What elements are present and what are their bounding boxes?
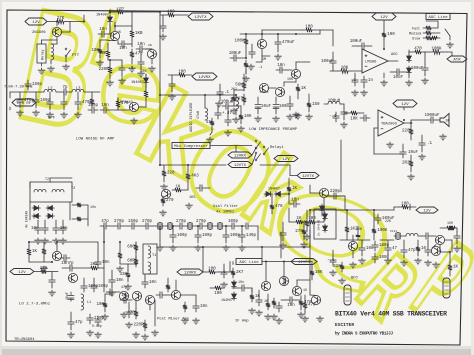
svg-text:Xtal: Xtal bbox=[390, 229, 397, 233]
svg-text:10K: 10K bbox=[91, 49, 99, 53]
svg-text:10n: 10n bbox=[116, 279, 124, 283]
svg-text:10uF: 10uF bbox=[261, 105, 272, 109]
svg-text:SP: SP bbox=[446, 119, 450, 123]
svg-text:220p: 220p bbox=[330, 190, 341, 194]
svg-text:27K: 27K bbox=[57, 17, 65, 21]
svg-text:10u: 10u bbox=[366, 247, 374, 251]
svg-text:1K: 1K bbox=[296, 217, 302, 221]
svg-text:1K: 1K bbox=[264, 299, 268, 303]
svg-text:L2: L2 bbox=[47, 88, 53, 92]
svg-text:600: 600 bbox=[127, 246, 135, 250]
svg-text:10uF: 10uF bbox=[393, 76, 404, 80]
svg-text:22K: 22K bbox=[385, 219, 391, 223]
svg-text:1M: 1M bbox=[262, 57, 266, 61]
svg-text:7p: 7p bbox=[68, 262, 74, 266]
svg-text:10n: 10n bbox=[101, 104, 109, 108]
svg-text:470uF: 470uF bbox=[282, 41, 295, 45]
svg-text:2K7: 2K7 bbox=[236, 271, 244, 275]
svg-text:ATR: ATR bbox=[453, 59, 461, 63]
svg-text:BFO: BFO bbox=[351, 277, 359, 281]
svg-text:1K: 1K bbox=[117, 30, 121, 34]
svg-text:270p: 270p bbox=[142, 220, 153, 224]
svg-text:10K: 10K bbox=[341, 66, 349, 70]
svg-text:2N: 2N bbox=[148, 44, 152, 47]
svg-text:10n: 10n bbox=[277, 64, 285, 68]
svg-text:.1: .1 bbox=[427, 142, 433, 146]
svg-text:7p: 7p bbox=[62, 86, 68, 90]
svg-text:100: 100 bbox=[298, 222, 306, 226]
svg-text:1K: 1K bbox=[255, 295, 261, 299]
svg-text:47: 47 bbox=[392, 247, 398, 251]
svg-text:1N4007: 1N4007 bbox=[96, 14, 109, 18]
svg-text:12VTX: 12VTX bbox=[302, 175, 315, 179]
svg-text:TR=2N3904: TR=2N3904 bbox=[14, 338, 35, 342]
svg-text:AGC: AGC bbox=[391, 53, 399, 57]
svg-text:10: 10 bbox=[303, 288, 307, 292]
svg-text:10K: 10K bbox=[287, 77, 293, 81]
svg-text:100K: 100K bbox=[377, 229, 388, 233]
svg-text:10n: 10n bbox=[149, 281, 157, 285]
svg-text:12V: 12V bbox=[401, 103, 409, 107]
svg-text:-.1: -.1 bbox=[329, 115, 337, 119]
svg-text:4x 1N4148: 4x 1N4148 bbox=[25, 211, 29, 228]
svg-text:220: 220 bbox=[402, 130, 410, 134]
svg-text:BPF: BPF bbox=[48, 117, 56, 121]
svg-text:AGC Line: AGC Line bbox=[239, 260, 259, 265]
svg-text:2N3906: 2N3906 bbox=[32, 31, 46, 35]
svg-text:220R: 220R bbox=[134, 324, 145, 328]
svg-text:1KB: 1KB bbox=[135, 32, 143, 36]
svg-text:PTT: PTT bbox=[72, 54, 80, 58]
svg-text:12V: 12V bbox=[423, 210, 431, 214]
svg-text:LO 2.7-3.0Mhz: LO 2.7-3.0Mhz bbox=[19, 302, 51, 307]
svg-text:Relay1: Relay1 bbox=[270, 145, 284, 150]
svg-text:150p: 150p bbox=[32, 83, 43, 87]
svg-text:150p: 150p bbox=[128, 220, 139, 224]
svg-text:51: 51 bbox=[206, 121, 212, 125]
svg-text:1K: 1K bbox=[32, 250, 38, 254]
svg-text:100: 100 bbox=[401, 202, 409, 206]
svg-text:12V: 12V bbox=[18, 271, 26, 275]
svg-text:470: 470 bbox=[275, 205, 283, 209]
svg-text:AGC Line: AGC Line bbox=[428, 15, 448, 20]
svg-text:150: 150 bbox=[312, 103, 320, 107]
svg-text:10K: 10K bbox=[244, 115, 252, 119]
svg-text:1n: 1n bbox=[368, 79, 374, 83]
svg-text:100p: 100p bbox=[98, 285, 109, 289]
svg-text:33K: 33K bbox=[119, 273, 127, 277]
svg-text:100: 100 bbox=[214, 292, 222, 296]
svg-text:10K: 10K bbox=[356, 227, 362, 231]
svg-text:T2: T2 bbox=[45, 177, 49, 181]
svg-text:4K3: 4K3 bbox=[191, 175, 199, 179]
svg-text:10K: 10K bbox=[96, 303, 104, 307]
svg-text:Slow: Slow bbox=[412, 37, 420, 42]
svg-text:100: 100 bbox=[308, 217, 316, 221]
svg-text:10n: 10n bbox=[137, 43, 145, 47]
svg-text:100uF: 100uF bbox=[350, 40, 363, 44]
svg-text:270p: 270p bbox=[196, 220, 207, 224]
svg-text:270p: 270p bbox=[114, 220, 125, 224]
svg-text:.1: .1 bbox=[224, 91, 230, 95]
svg-text:10n: 10n bbox=[287, 304, 295, 308]
svg-text:100uF: 100uF bbox=[411, 67, 424, 71]
svg-text:EXCITER: EXCITER bbox=[335, 323, 354, 328]
svg-text:10n: 10n bbox=[90, 205, 96, 209]
svg-text:220: 220 bbox=[167, 172, 175, 176]
svg-text:.1: .1 bbox=[351, 79, 357, 83]
svg-text:1K: 1K bbox=[301, 87, 307, 91]
svg-text:100: 100 bbox=[279, 105, 287, 109]
svg-text:BITX40 Ver4 40M SSB TRANSCEIVE: BITX40 Ver4 40M SSB TRANSCEIVER bbox=[335, 311, 447, 318]
svg-text:.1: .1 bbox=[258, 66, 262, 70]
svg-text:Fast: Fast bbox=[412, 28, 420, 32]
svg-text:-.1: -.1 bbox=[327, 259, 335, 263]
svg-text:220: 220 bbox=[333, 265, 341, 269]
svg-text:T1: T1 bbox=[152, 254, 156, 258]
svg-text:2x 1N4148: 2x 1N4148 bbox=[318, 220, 321, 236]
svg-text:12VRX: 12VRX bbox=[234, 155, 247, 159]
svg-text:47p: 47p bbox=[101, 220, 109, 224]
svg-text:100p: 100p bbox=[88, 104, 99, 108]
svg-text:10n: 10n bbox=[291, 198, 299, 202]
svg-text:100: 100 bbox=[208, 267, 216, 271]
svg-text:10n: 10n bbox=[31, 227, 39, 231]
svg-text:10n: 10n bbox=[119, 47, 127, 51]
svg-text:IF Amp: IF Amp bbox=[235, 320, 249, 324]
svg-text:Relay: Relay bbox=[41, 49, 46, 60]
svg-text:47p: 47p bbox=[75, 321, 83, 325]
svg-text:12V: 12V bbox=[380, 16, 388, 20]
svg-text:100: 100 bbox=[387, 33, 395, 37]
svg-text:+.47: +.47 bbox=[222, 112, 233, 116]
svg-text:100: 100 bbox=[305, 25, 313, 29]
svg-text:1N: 1N bbox=[323, 206, 326, 210]
svg-text:10n: 10n bbox=[99, 28, 107, 32]
svg-text:T2: T2 bbox=[71, 187, 75, 191]
svg-text:12V: 12V bbox=[282, 158, 290, 162]
svg-text:12V: 12V bbox=[32, 21, 40, 25]
svg-text:470: 470 bbox=[414, 47, 422, 51]
svg-text:100K: 100K bbox=[234, 40, 245, 44]
svg-text:4x 10Mhz: 4x 10Mhz bbox=[216, 210, 234, 215]
svg-text:Mic Compressor: Mic Compressor bbox=[174, 144, 208, 149]
svg-text:1N4007: 1N4007 bbox=[268, 187, 280, 191]
svg-text:12VTX: 12VTX bbox=[194, 16, 207, 20]
svg-text:LOW IMPEDANCE PREAMP: LOW IMPEDANCE PREAMP bbox=[249, 128, 298, 132]
svg-text:10uF: 10uF bbox=[65, 292, 69, 300]
svg-text:L3: L3 bbox=[75, 88, 81, 92]
svg-text:10K: 10K bbox=[315, 271, 323, 275]
svg-text:2R2: 2R2 bbox=[402, 162, 410, 166]
svg-text:47uH: 47uH bbox=[196, 111, 200, 119]
svg-text:1K5: 1K5 bbox=[189, 196, 195, 200]
svg-text:470: 470 bbox=[135, 53, 143, 57]
svg-text:10uF: 10uF bbox=[408, 151, 419, 155]
svg-text:270: 270 bbox=[295, 230, 303, 234]
svg-text:220R: 220R bbox=[98, 68, 109, 72]
svg-text:TBA2003: TBA2003 bbox=[381, 122, 398, 126]
svg-text:100uH: 100uH bbox=[328, 100, 341, 104]
svg-text:1N4007: 1N4007 bbox=[221, 298, 233, 302]
svg-text:270: 270 bbox=[166, 199, 174, 203]
svg-text:by INDRA S EKOPUTRO YB1JJJ: by INDRA S EKOPUTRO YB1JJJ bbox=[335, 332, 393, 337]
svg-text:100: 100 bbox=[178, 70, 186, 74]
svg-text:100uF: 100uF bbox=[229, 52, 242, 56]
svg-text:100: 100 bbox=[167, 10, 175, 14]
svg-text:10n: 10n bbox=[200, 305, 208, 309]
svg-text:L1: L1 bbox=[87, 301, 91, 305]
svg-text:100p: 100p bbox=[177, 234, 188, 238]
svg-text:1K: 1K bbox=[175, 185, 181, 189]
svg-text:220: 220 bbox=[116, 7, 124, 11]
svg-text:LOW NOISE RF AMP: LOW NOISE RF AMP bbox=[76, 138, 115, 142]
svg-text:1K: 1K bbox=[453, 266, 459, 270]
svg-text:47p: 47p bbox=[408, 249, 416, 253]
svg-text:100: 100 bbox=[447, 221, 453, 225]
svg-text:1N4007: 1N4007 bbox=[131, 81, 144, 85]
svg-text:100uF: 100uF bbox=[321, 60, 334, 64]
svg-text:-.1: -.1 bbox=[126, 67, 134, 71]
svg-text:0-50p: 0-50p bbox=[92, 324, 102, 328]
svg-text:12VRX: 12VRX bbox=[198, 76, 211, 80]
svg-text:140p: 140p bbox=[246, 234, 257, 238]
svg-text:1K: 1K bbox=[292, 187, 298, 191]
svg-text:100K: 100K bbox=[431, 47, 442, 51]
svg-text:Medium: Medium bbox=[409, 32, 421, 37]
svg-text:MPSH10: MPSH10 bbox=[120, 101, 133, 105]
svg-text:10n: 10n bbox=[238, 280, 244, 284]
svg-text:12VRX: 12VRX bbox=[184, 272, 197, 276]
svg-text:LM386: LM386 bbox=[365, 60, 377, 64]
svg-text:Xtal Filter: Xtal Filter bbox=[213, 204, 238, 209]
svg-text:60R: 60R bbox=[127, 260, 135, 264]
svg-text:10K: 10K bbox=[350, 118, 358, 122]
svg-text:270p: 270p bbox=[176, 220, 187, 224]
svg-text:1000uF: 1000uF bbox=[424, 114, 440, 118]
svg-text:10n: 10n bbox=[102, 261, 110, 265]
svg-text:12VTX: 12VTX bbox=[234, 164, 247, 168]
svg-text:AUDIO DIPLEXER: AUDIO DIPLEXER bbox=[190, 102, 194, 132]
svg-text:100p: 100p bbox=[228, 220, 239, 224]
svg-text:-.1: -.1 bbox=[218, 271, 226, 275]
svg-text:100p: 100p bbox=[202, 234, 213, 238]
